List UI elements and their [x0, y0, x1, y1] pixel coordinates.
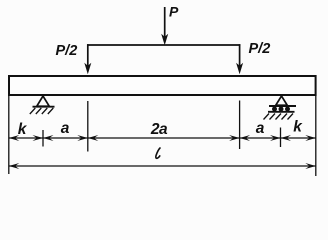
dimension line row [9, 137, 316, 139]
dim arrows at x=240 [229, 135, 240, 141]
beam body [9, 76, 316, 95]
dim arrows at x=9 [9, 135, 19, 141]
svg-text:2a: 2a [150, 121, 168, 138]
left extension line [8, 96, 10, 174]
svg-text:k: k [293, 119, 303, 136]
svg-text:a: a [61, 120, 70, 137]
svg-text:a: a [256, 120, 265, 137]
right extension line [315, 96, 317, 176]
left P/2 arrowhead [84, 63, 91, 75]
svg-text:k: k [18, 121, 28, 138]
left support tick [42, 130, 44, 147]
l dim arrow right [305, 163, 316, 169]
spreader bar (top horizontal line) [87, 44, 240, 46]
right support hatching [264, 114, 294, 120]
left support ground line [33, 106, 55, 108]
force P arrow shaft [164, 7, 166, 42]
dim arrows at x=43 [33, 135, 44, 141]
dim arrow at x=316 [305, 135, 316, 141]
svg-text:P/2: P/2 [56, 43, 78, 59]
force P arrowhead [161, 34, 168, 46]
right support upper plate line [269, 105, 296, 107]
extension line x=88 [87, 101, 89, 152]
dim arrows at x=280.5 [270, 135, 281, 141]
right P/2 arrowhead [236, 63, 243, 75]
right support rollers [272, 107, 290, 112]
label l (script ell) [156, 148, 160, 158]
right P/2 drop wire [239, 44, 241, 70]
right support lower plate line [268, 111, 295, 113]
left P/2 drop wire [87, 44, 89, 70]
extension line x=240 [239, 101, 241, 150]
left support hatching [30, 108, 54, 114]
svg-text:P: P [169, 4, 179, 20]
left pin support triangle [37, 96, 49, 106]
l dim arrow left [9, 163, 19, 169]
dim arrows at x=88 [77, 135, 88, 141]
svg-text:P/2: P/2 [249, 41, 271, 57]
right roller support triangle [276, 96, 287, 105]
total length dimension line [9, 165, 316, 167]
right support tick [280, 128, 282, 148]
